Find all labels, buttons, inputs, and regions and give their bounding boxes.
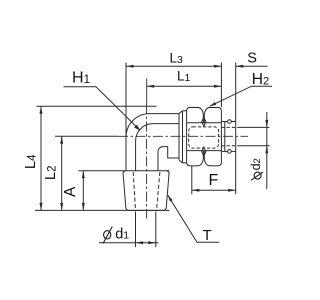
arrowhead leader H2 — [209, 102, 216, 106]
phi d2 dimension line — [266, 112, 268, 189]
svg-text:T: T — [203, 227, 212, 244]
elbow body inner corner arc — [136, 124, 153, 141]
tube stub inner line — [224, 122, 226, 152]
label phi d2 (rotated) — [251, 172, 263, 180]
extension line at tube end — [235, 63, 237, 195]
elbow body right edge — [157, 152, 159, 171]
svg-text:H2: H2 — [252, 71, 269, 88]
dimension L3 extension line left / body tangent — [125, 63, 127, 138]
thread top edge with A extension line — [78, 170, 169, 172]
dimension right extension line at nut face — [220, 63, 222, 108]
nut top hex face left — [187, 107, 204, 122]
elbow body left edge — [125, 137, 127, 171]
arrow F left — [192, 189, 200, 192]
elbow body outer corner arc — [126, 114, 150, 138]
collar top edge — [183, 110, 187, 112]
tube stub top edge — [221, 121, 235, 123]
dimension F extension left — [191, 166, 193, 194]
phi d1 dimension line — [99, 242, 159, 244]
arrow A bottom — [82, 203, 85, 211]
nut top corner diamond — [202, 117, 206, 126]
arrowhead leader H1 — [134, 125, 140, 131]
nut bottom hex face right — [204, 151, 221, 166]
nut top hex face right — [204, 107, 221, 122]
nut right side — [220, 123, 222, 151]
label phi d1 — [103, 227, 112, 244]
vertical centerline — [146, 104, 148, 219]
phi d2 extension top — [237, 126, 269, 128]
nut upper band line — [187, 122, 222, 124]
thread root dashed line right — [157, 172, 160, 209]
svg-text:S: S — [247, 50, 257, 66]
collar bevel left vertical — [178, 113, 180, 159]
svg-text:L4: L4 — [23, 154, 39, 169]
arrow phi d2 bottom — [265, 146, 268, 154]
svg-text:L1: L1 — [177, 69, 191, 85]
tube bead circle top — [228, 120, 232, 124]
elbow body inner left line — [135, 141, 137, 171]
L4 top reference line — [37, 105, 157, 107]
svg-text:H1: H1 — [72, 70, 90, 87]
arrow L1 left — [147, 85, 155, 88]
dimension L3 line — [126, 65, 221, 67]
collar bottom bevel — [179, 160, 183, 163]
arrow L3 left — [126, 65, 134, 68]
phi d2 extension bottom — [237, 145, 269, 147]
dimension F line — [192, 189, 236, 191]
horizontal centerline — [118, 135, 248, 137]
arrow F right — [228, 189, 236, 192]
male taper thread outline — [123, 171, 169, 211]
elbow body inner fillet — [158, 147, 163, 152]
arrowhead leader T — [168, 195, 173, 202]
tube stub bottom edge — [221, 150, 235, 152]
nut left side — [186, 123, 188, 151]
svg-text:d2: d2 — [249, 158, 263, 170]
dimension S line — [236, 65, 268, 67]
nut lower band line — [187, 150, 222, 152]
collar bottom edge — [183, 162, 187, 164]
arrow L2 bottom — [60, 203, 63, 211]
arrow L2 top — [60, 136, 63, 144]
svg-text:d1: d1 — [115, 226, 129, 242]
dimension A line — [82, 171, 84, 211]
arrow phi d1 left — [136, 241, 144, 244]
dimension L2 line — [61, 136, 63, 210]
nut bottom corner diamond — [202, 147, 206, 156]
bottom reference line — [35, 209, 170, 211]
tube bore hidden line bottom (dashed) — [221, 145, 235, 147]
arrow L4 top — [40, 106, 43, 114]
arrow phi d2 top — [265, 120, 268, 128]
tube bore hidden line top (dashed) — [221, 126, 235, 128]
dimension L1 line — [147, 85, 222, 87]
leader H1 — [64, 87, 141, 131]
svg-text:A: A — [62, 186, 79, 197]
svg-text:L2: L2 — [43, 166, 59, 180]
elbow body inner top line — [153, 123, 179, 125]
phi d1 extension right — [155, 212, 157, 248]
dimension L1 extension (centerline up) — [146, 78, 148, 104]
nut hidden cavity (dashed) — [189, 127, 219, 148]
L2 reference line — [55, 135, 118, 137]
arrow L1 right — [214, 85, 222, 88]
tube bead circle bottom — [228, 150, 232, 154]
nut bottom hex face left — [187, 151, 204, 166]
leader H2 — [210, 86, 272, 106]
arrow phi d1 right — [148, 241, 156, 244]
collar top bevel — [179, 111, 183, 114]
elbow body top edge — [150, 113, 180, 115]
arrow L3 right — [214, 65, 222, 68]
leader T — [168, 195, 220, 242]
collar inner vertical — [182, 111, 184, 163]
svg-text:L3: L3 — [170, 51, 184, 67]
dimension L4 line — [40, 106, 42, 210]
svg-text:F: F — [209, 172, 219, 189]
thread root dashed line left — [133, 172, 135, 209]
elbow body lower step — [163, 147, 179, 158]
arrow A top — [82, 171, 85, 179]
arrow L4 bottom — [40, 203, 43, 211]
phi d1 extension left — [135, 212, 137, 248]
arrow S — [236, 65, 244, 68]
